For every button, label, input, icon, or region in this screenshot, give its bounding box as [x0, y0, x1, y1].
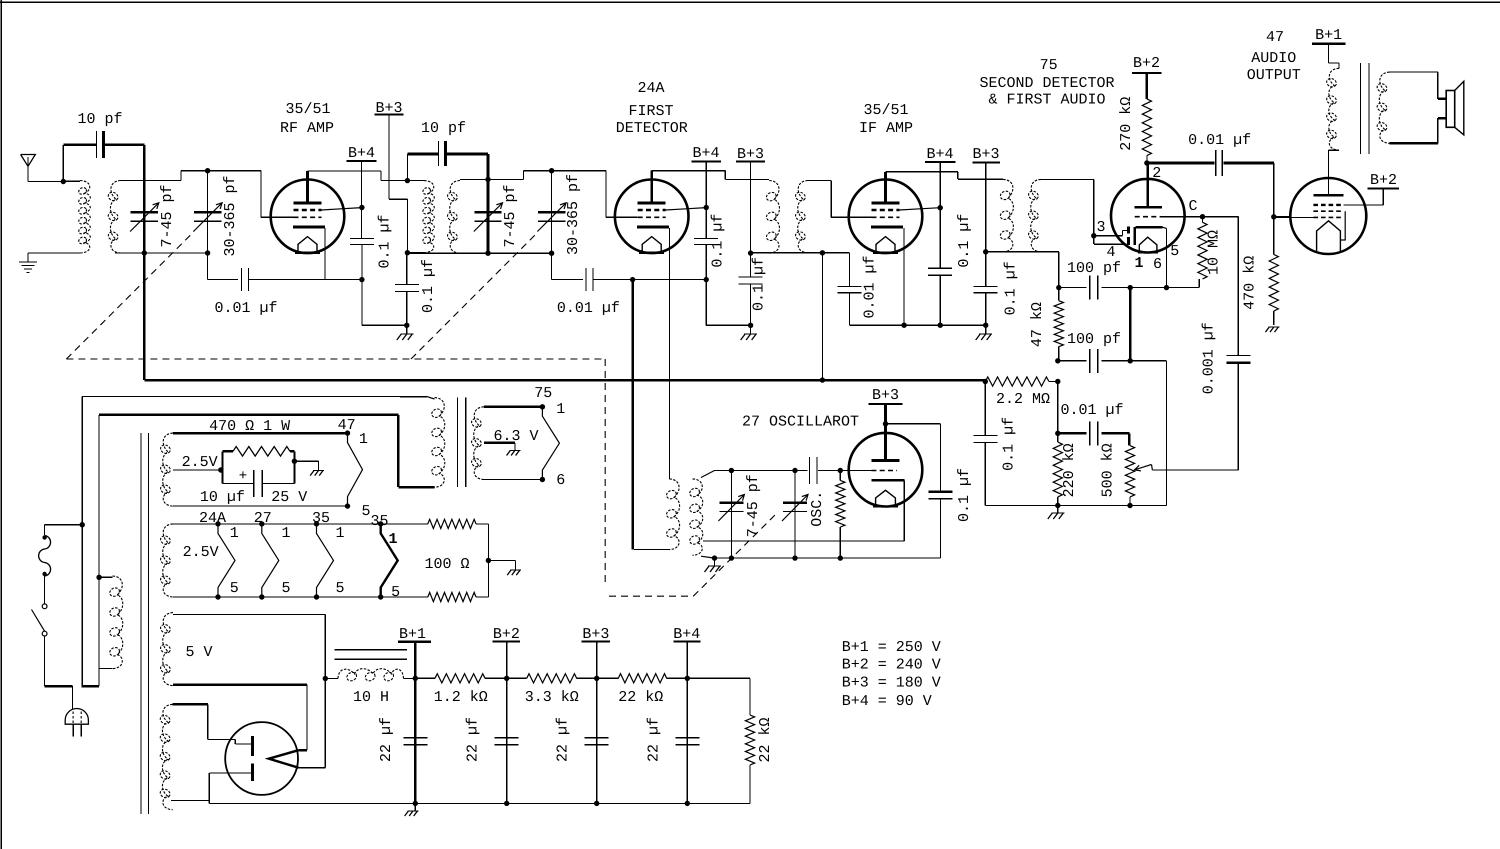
winding W2 2.5V no.2	[159, 524, 173, 597]
wire B1 ground stub	[414, 803, 416, 811]
filament 35 heater	[317, 524, 334, 597]
label C7 0.1 uf	[709, 214, 726, 268]
node VC4 top	[549, 168, 554, 173]
speaker LS1	[1446, 81, 1464, 135]
filament 47 heater	[348, 433, 363, 506]
label R13 22 kOhm	[618, 689, 663, 706]
label V2 24A	[637, 80, 664, 97]
svg-text:0.1 µf: 0.1 µf	[751, 257, 768, 311]
svg-text:10 µf: 10 µf	[200, 489, 245, 506]
wire C5 left drop	[407, 154, 409, 181]
svg-text:1: 1	[230, 525, 239, 542]
power B+2 det underline	[1132, 72, 1161, 74]
capacitor C19 osc grid cap	[810, 457, 841, 484]
wire 47 grid wire	[1274, 216, 1314, 218]
resistor R10 100 Ohm lower	[381, 592, 489, 601]
label 27 pin5	[281, 580, 290, 597]
wire AC vertical 2	[98, 415, 100, 686]
transformer T3 primary coil	[765, 181, 779, 254]
label B+3 stage3	[972, 146, 999, 163]
wire diode lead 3	[1094, 231, 1128, 236]
wire B+1 stem (thick)	[414, 642, 417, 804]
label C2 0.01 uf	[214, 300, 277, 317]
power B+2 output underline	[1367, 188, 1399, 190]
label B+3 stage1	[375, 100, 402, 117]
wire B+3 osc stem	[884, 404, 887, 461]
svg-text:22 kΩ: 22 kΩ	[618, 689, 663, 706]
node bus cathode stage3	[901, 323, 906, 328]
svg-text:B+2: B+2	[1370, 172, 1397, 189]
wire T3 secondary top to grid	[808, 181, 872, 218]
node VC6 top	[792, 468, 797, 473]
label V4 FIRST AUDIO	[988, 92, 1105, 109]
svg-text:22 µf: 22 µf	[555, 717, 572, 762]
node RC right	[292, 459, 297, 464]
node B3 gnd	[594, 801, 599, 806]
label 35 pin1	[335, 525, 344, 542]
node C12 right thick	[1128, 285, 1133, 290]
svg-text:B+3: B+3	[582, 626, 609, 643]
wire AVC drop stage3	[821, 253, 823, 380]
svg-text:24A: 24A	[199, 510, 226, 527]
label C21 22 uf	[378, 717, 395, 762]
legend B+3	[842, 675, 941, 692]
ground stage2	[741, 334, 758, 340]
svg-text:10 H: 10 H	[353, 689, 389, 706]
svg-text:OSC.: OSC.	[809, 491, 826, 527]
capacitor C13 100 pf	[1058, 349, 1130, 373]
transformer T4 primary coil	[999, 179, 1013, 251]
power B+1 filter underline	[398, 640, 431, 643]
power B+4 stage2 underline	[692, 161, 722, 163]
switch S1 terminal 2	[42, 631, 47, 636]
label R11 1.2 kOhm	[434, 689, 488, 706]
wire V1 cathode lead	[324, 228, 326, 280]
ground main B-	[405, 811, 419, 816]
wire plug left lead (thick)	[45, 686, 73, 709]
label R3 270 kOhm	[1118, 97, 1135, 151]
power B+4 stage3 underline	[925, 161, 956, 163]
wire B+3 stem stage3	[985, 162, 987, 251]
node B1 rail	[413, 676, 418, 681]
label R6 220 kOhm	[1061, 443, 1078, 497]
filament 27 heater	[262, 524, 279, 597]
dashed gang bus horizontal	[66, 358, 605, 360]
svg-text:22 µf: 22 µf	[465, 717, 482, 762]
label C22 22 uf	[465, 717, 482, 762]
node B3 rail	[594, 676, 599, 681]
svg-text:7-45 pf: 7-45 pf	[745, 474, 762, 537]
label V2 DETECTOR	[616, 120, 688, 137]
node cathode/B4 junction	[359, 277, 364, 282]
wire V1 grid lead	[0, 0, 1, 1]
wire C8 stem	[750, 253, 752, 325]
svg-text:30-365 pf: 30-365 pf	[222, 175, 239, 256]
svg-text:0.01 µf: 0.01 µf	[557, 300, 620, 317]
label C11 0.1 uf	[1003, 261, 1020, 315]
wire AC to wavy winding	[45, 525, 83, 535]
label V3 35/51	[863, 102, 908, 119]
tube V6 27 OSCILLATOR	[849, 433, 923, 507]
capacitor C15 0.001 uf	[1226, 356, 1250, 363]
svg-text:75: 75	[534, 385, 552, 402]
node V3 screen to B+4	[938, 205, 943, 210]
wire T4 secondary bottom	[1058, 252, 1060, 288]
wire osc cathode lead	[703, 480, 904, 541]
wire ground stub stage2	[750, 325, 752, 334]
label pin 5	[1170, 243, 1179, 260]
ground filament RC	[310, 471, 324, 476]
label R4 470 kOhm	[1242, 256, 1259, 310]
label C18 0.1 uf	[956, 468, 973, 522]
wire B2 drop	[506, 678, 508, 803]
label V2 FIRST	[628, 103, 673, 120]
wire step up to grid wire stage2	[488, 171, 638, 218]
wire V3 screen lead	[900, 208, 941, 210]
wire V1 screen lead	[322, 208, 362, 210]
svg-text:0.1 µf: 0.1 µf	[709, 214, 726, 268]
label 75 fil pin1	[556, 401, 565, 418]
capacitor C3 0.1 uf	[350, 239, 374, 245]
wire V2 screen lead	[666, 208, 707, 210]
node B1 gnd	[413, 801, 418, 806]
node grid node C	[1200, 214, 1205, 219]
label pin 1	[1134, 255, 1143, 272]
wire B+3 stem stage2	[750, 162, 752, 254]
resistor R12 3.3 kOhm	[507, 674, 597, 683]
svg-text:2.2 MΩ: 2.2 MΩ	[996, 391, 1050, 408]
label C6 0.01 uf	[557, 300, 620, 317]
capacitor C18 0.1 uf osc	[929, 492, 953, 499]
capacitor C14 0.01 uf coupling	[1147, 150, 1274, 176]
label B+2 det	[1133, 55, 1160, 72]
antenna ANT	[21, 155, 36, 182]
node osc ground	[712, 555, 717, 560]
tube V2 24A FIRST DETECTOR	[615, 180, 689, 254]
wire T6 sec bottom	[484, 479, 542, 481]
wire R10 right	[487, 524, 489, 597]
wire B4 drop	[686, 678, 688, 803]
svg-text:470 Ω 1 W: 470 Ω 1 W	[209, 418, 290, 435]
svg-text:35/51: 35/51	[863, 102, 908, 119]
power B+4 stage1 underline	[347, 160, 377, 162]
wire C3 to cathode bus	[361, 245, 363, 326]
label 35-2 pin5	[391, 584, 400, 601]
label C13 100 pf	[1067, 331, 1121, 348]
node osc grid node	[838, 468, 843, 473]
label fil 35 no.2	[370, 513, 388, 530]
wire VC2 to C2	[208, 253, 238, 280]
resistor R10 100 Ohm upper	[381, 519, 489, 528]
capacitor C6 0.01 uf	[586, 268, 593, 291]
power B+3 stage3 underline	[972, 161, 1000, 163]
wire W3 top to B+	[173, 614, 325, 678]
ground oscillator	[705, 566, 722, 572]
wire V3 cathode lead	[903, 228, 905, 325]
svg-text:5: 5	[361, 503, 370, 520]
transformer T2 primary coil	[422, 181, 434, 253]
node 35 fil bottom	[314, 594, 319, 599]
node B4 rail	[685, 676, 690, 681]
label C20 10 uf	[200, 489, 245, 506]
wire T5 primary to plate	[1328, 150, 1339, 195]
label C5 10 pf	[421, 120, 466, 137]
tube V1 35/51 RF AMP	[271, 180, 345, 254]
node osc plate bypass tap	[883, 421, 888, 426]
node det bottom 47k	[1056, 285, 1061, 290]
node AC tap 1	[80, 522, 85, 527]
power B+3 stage1 underline	[375, 114, 404, 116]
svg-text:27 OSCILLAROT: 27 OSCILLAROT	[742, 414, 859, 431]
svg-text:2.5V: 2.5V	[183, 544, 219, 561]
node grid node stage2	[485, 177, 490, 182]
label B+2 filter	[493, 626, 520, 643]
label B+4 stage1	[348, 145, 375, 162]
wire C5 right drop (thick)	[487, 154, 490, 180]
wire osc ground stub	[714, 558, 716, 566]
label VC3 7-45 pf	[502, 184, 519, 247]
svg-text:47: 47	[1266, 29, 1284, 46]
capacitor C21 22 uf	[403, 738, 427, 745]
label fil 27	[254, 510, 272, 527]
label B+1 output	[1315, 27, 1342, 44]
wire T4 bottom line	[986, 251, 1059, 253]
node T4 primary bottom	[983, 249, 988, 254]
label C20 25 V	[271, 489, 307, 506]
node B4 gnd	[685, 801, 690, 806]
wire ground bus stage2	[706, 324, 750, 326]
node 35-2 fil bottom	[378, 594, 383, 599]
svg-text:B+1: B+1	[1315, 27, 1342, 44]
rectifier plate lower	[251, 763, 254, 781]
winding W3 5V	[159, 613, 173, 686]
wire B+4 stem stage1	[361, 161, 363, 239]
wire T3 bottom line	[751, 252, 823, 254]
resistor R13 22 kOhm	[597, 674, 688, 683]
wire V4 grid lead	[1160, 216, 1202, 218]
capacitor C17 0.01 uf	[1058, 421, 1130, 445]
svg-text:B+3: B+3	[872, 387, 899, 404]
node plate/10pf junction	[405, 178, 410, 183]
power B+1 output underline	[1312, 42, 1346, 45]
label V3 IF AMP	[859, 120, 913, 137]
node tank bottom VC1	[142, 250, 147, 255]
wire V2 plate lead	[650, 171, 653, 203]
wire C16 stem	[985, 382, 1058, 506]
wire W1 bottom	[173, 505, 348, 507]
transformer T1 secondary coil	[107, 181, 121, 254]
label C17 0.01 uf	[1060, 402, 1123, 419]
capacitor C1 10 pf	[63, 131, 144, 158]
wire antenna to node	[28, 181, 63, 183]
winding T6 secondary 6.3V	[470, 407, 484, 480]
ground 47 grid return	[1265, 327, 1279, 332]
svg-text:47 kΩ: 47 kΩ	[1029, 302, 1046, 347]
node 75 fil pin1	[540, 404, 545, 409]
svg-text:0.1 µf: 0.1 µf	[956, 214, 973, 268]
wire B+3 stem stage1	[389, 115, 407, 253]
transformer T6 core	[457, 398, 465, 488]
label V5 47	[1266, 29, 1284, 46]
resistor R1 47 kOhm	[1054, 288, 1063, 361]
svg-text:C: C	[1188, 198, 1197, 215]
label V5 OUTPUT	[1247, 67, 1301, 84]
wire C18 stem	[840, 424, 940, 558]
svg-text:75: 75	[1040, 57, 1058, 74]
svg-text:B+4 = 90 V: B+4 = 90 V	[842, 693, 932, 710]
capacitor C12 100 pf	[1059, 276, 1167, 300]
winding W6 primary left wavy	[39, 535, 51, 576]
svg-text:B+4: B+4	[926, 146, 953, 163]
node AC tap 2	[96, 575, 101, 580]
node B4 bus stage2	[704, 277, 709, 282]
svg-text:100 pf: 100 pf	[1067, 260, 1121, 277]
filament 75 heater	[542, 407, 559, 480]
wire AVC bus (thick)	[144, 253, 985, 380]
svg-text:B+3 = 180 V: B+3 = 180 V	[842, 675, 941, 692]
node 24A fil top	[215, 521, 220, 526]
svg-text:5: 5	[281, 580, 290, 597]
label V1 35/51	[285, 101, 330, 118]
svg-text:22 kΩ: 22 kΩ	[757, 717, 774, 762]
svg-text:1.2 kΩ: 1.2 kΩ	[434, 689, 488, 706]
wire T1 secondary top to grid	[121, 171, 294, 218]
label VC2 30-365 pf	[222, 175, 239, 256]
resistor R6 220 kOhm	[1053, 382, 1062, 506]
plug P1 prongs	[73, 724, 81, 736]
svg-text:100 Ω: 100 Ω	[424, 556, 469, 573]
label V4 SECOND DETECTOR	[979, 75, 1114, 92]
node R8 bottom	[838, 555, 843, 560]
label V6 27 OSCILLAROT	[742, 414, 859, 431]
node tank bottom VC3	[485, 251, 490, 256]
capacitor C4 0.1 uf	[395, 285, 419, 292]
wire V2 plate to T3	[652, 171, 770, 180]
node T2 primary bottom	[405, 250, 410, 255]
svg-text:10 pf: 10 pf	[77, 111, 122, 128]
wire heater bus 2	[99, 414, 398, 416]
wire tank bottom	[115, 252, 208, 254]
resistor R4 470 kOhm	[1269, 217, 1278, 325]
wire wavy to switch	[44, 576, 46, 604]
svg-text:B+1 = 250 V: B+1 = 250 V	[842, 639, 941, 656]
wire V4 cathode pin5	[1166, 228, 1168, 287]
svg-text:30-365 pf: 30-365 pf	[565, 174, 582, 255]
plug P1 AC plug	[65, 708, 88, 724]
svg-text:35/51: 35/51	[285, 101, 330, 118]
wire cathode bus	[325, 279, 362, 281]
svg-text:1: 1	[359, 431, 368, 448]
svg-text:2.5V: 2.5V	[182, 454, 218, 471]
wire T6 sec top (thick)	[484, 406, 542, 408]
diode plate upper V4	[1127, 227, 1130, 234]
label B+3 filter	[582, 626, 609, 643]
transformer T5 primary coil	[1325, 68, 1339, 150]
wire VC4 stem	[551, 171, 553, 254]
wire C4 stem	[406, 253, 408, 326]
ground stage1	[397, 334, 414, 340]
node VC5 bottom	[729, 555, 734, 560]
resistor R3 270 kOhm	[1142, 73, 1151, 163]
power transformer core	[141, 433, 149, 814]
wire V3 plate lead	[884, 172, 887, 203]
node VC5 top	[729, 468, 734, 473]
node 75 fil pin6	[540, 477, 545, 482]
variable capacitor VC1 7-45 pf	[130, 203, 159, 232]
node det gnd bus left	[1055, 431, 1060, 436]
wire to 10M bottom	[1167, 279, 1200, 288]
label R2 10 MOhm	[1206, 230, 1223, 275]
node RC left	[218, 467, 223, 472]
wire AC vertical 1	[81, 397, 83, 687]
label R5 2.2 MOhm	[996, 391, 1050, 408]
wire C9 stem	[822, 253, 849, 325]
label V1 RF AMP	[280, 120, 334, 137]
wire B+3 stem	[596, 642, 598, 679]
label C16 0.1 uf	[1001, 417, 1018, 471]
wire ground bus stage1	[362, 324, 407, 326]
wire tickler bottom	[634, 549, 669, 551]
wire T5 secondary to speaker	[1390, 72, 1447, 143]
label tube 47 fil	[338, 417, 356, 434]
node B2 rail	[504, 676, 509, 681]
ground stage3	[976, 334, 993, 340]
wire W2 bottom	[173, 596, 381, 598]
svg-text:100 pf: 100 pf	[1067, 331, 1121, 348]
node B2 gnd	[504, 801, 509, 806]
wire B+4 stem stage2	[705, 162, 707, 239]
node grid top VC2	[205, 168, 210, 173]
label pin 3	[1096, 219, 1105, 236]
svg-text:5: 5	[335, 580, 344, 597]
svg-text:10 MΩ: 10 MΩ	[1206, 230, 1223, 275]
wire junction to tickler (thick)	[631, 280, 634, 550]
dashed gang line stage2	[411, 233, 537, 359]
wire B+4 stem stage3	[939, 162, 941, 268]
wire W3 bottom (thick)	[173, 685, 307, 751]
wire V4 plate lead	[1147, 163, 1150, 207]
wire B3 drop	[596, 678, 598, 803]
resistor R2 10 MOhm	[1198, 217, 1207, 279]
wire W1 top (thick)	[173, 432, 348, 435]
label 35-2 pin1	[388, 531, 397, 548]
label C23 22 uf	[555, 717, 572, 762]
wire B+1 to T5	[1328, 44, 1339, 69]
label B+4 stage2	[692, 145, 719, 162]
label 24A pin1	[230, 525, 239, 542]
svg-text:470 kΩ: 470 kΩ	[1242, 256, 1259, 310]
node plate node 2	[1144, 160, 1149, 165]
svg-text:IF AMP: IF AMP	[859, 120, 913, 137]
node 47 fil top	[345, 430, 350, 435]
node pin5 junction	[1164, 285, 1169, 290]
svg-text:B+2 = 240 V: B+2 = 240 V	[842, 656, 941, 673]
capacitor C8 0.1 uf	[739, 277, 763, 284]
node 27 fil top	[259, 521, 264, 526]
wire C15 to wiper	[1152, 363, 1238, 471]
label C1 10 pf	[77, 111, 122, 128]
label B+1 filter	[399, 626, 426, 643]
label 24A pin5	[230, 580, 239, 597]
svg-text:FIRST: FIRST	[628, 103, 673, 120]
capacitor C5 10 pf	[408, 141, 489, 166]
label B+2 output	[1370, 172, 1397, 189]
label C14 0.01 uf	[1188, 132, 1251, 149]
label R10 100 Ohm	[424, 556, 469, 573]
svg-text:5: 5	[391, 584, 400, 601]
label node C	[1188, 198, 1197, 215]
svg-text:1: 1	[281, 525, 290, 542]
